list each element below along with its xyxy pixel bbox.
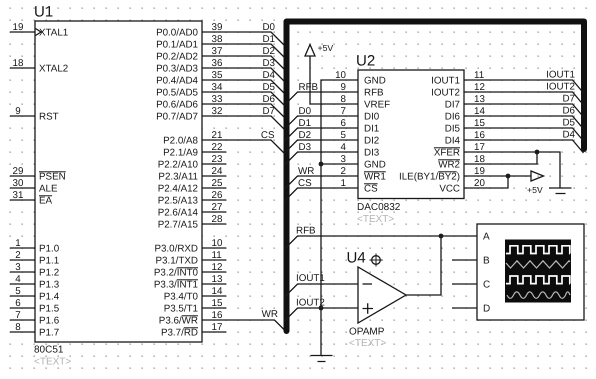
svg-text:35: 35 <box>212 70 223 81</box>
svg-text:D7: D7 <box>262 106 275 117</box>
svg-text:D6: D6 <box>262 94 275 105</box>
svg-text:CS: CS <box>364 183 378 194</box>
U1 pin 2 wire <box>10 259 35 261</box>
wire D0 to U2 <box>285 116 359 129</box>
svg-text:12: 12 <box>212 262 223 273</box>
svg-text:<TEXT>: <TEXT> <box>349 338 386 349</box>
svg-text:P2.0/A8: P2.0/A8 <box>163 135 198 146</box>
ground symbol (left) <box>311 356 333 362</box>
svg-text:39: 39 <box>212 22 223 33</box>
svg-text:RST: RST <box>39 111 59 122</box>
U1 pin 34 wire <box>202 92 285 106</box>
svg-text:D3: D3 <box>299 142 312 153</box>
svg-text:14: 14 <box>212 286 223 297</box>
IC U1 80C51 body <box>35 21 202 342</box>
junction ILE/VCC <box>506 174 511 179</box>
svg-text:<TEXT>: <TEXT> <box>34 357 71 368</box>
wire D2 to U2 <box>285 140 359 153</box>
svg-text:3: 3 <box>15 262 21 273</box>
svg-text:11: 11 <box>212 250 222 261</box>
svg-text:15: 15 <box>212 298 223 309</box>
U1 pin 38 wire <box>202 44 285 58</box>
scope input D wire <box>452 307 477 309</box>
svg-text:A: A <box>483 232 490 243</box>
svg-text:DI0: DI0 <box>364 111 380 122</box>
svg-text:P1.2: P1.2 <box>39 267 59 278</box>
svg-text:P1.0: P1.0 <box>39 243 60 254</box>
opamp output feedback wire <box>406 236 441 295</box>
svg-text:IOUT1: IOUT1 <box>431 75 460 86</box>
U1 pin 35 wire <box>202 80 285 94</box>
svg-text:P2.7/A15: P2.7/A15 <box>158 219 199 230</box>
svg-text:19: 19 <box>13 22 24 33</box>
U1 pin 12 wire <box>202 271 226 273</box>
svg-text:GND: GND <box>364 159 386 170</box>
U1 pin 26 wire <box>202 199 226 201</box>
svg-text:D: D <box>483 304 490 315</box>
junction IOUT2-gnd <box>319 306 324 311</box>
svg-text:P1.6: P1.6 <box>39 315 60 326</box>
U1 pin 5 wire <box>10 295 35 297</box>
svg-text:RFB: RFB <box>364 87 384 98</box>
svg-text:P3.2/INT0: P3.2/INT0 <box>154 267 199 278</box>
svg-text:D4: D4 <box>562 129 575 140</box>
svg-text:P3.4/T0: P3.4/T0 <box>164 291 199 302</box>
U1 pin 13 wire <box>202 283 226 285</box>
svg-text:P2.5/A13: P2.5/A13 <box>158 195 199 206</box>
scope trace C square wave <box>506 276 570 284</box>
wire XFER pin17 to gnd <box>464 152 560 188</box>
svg-text:3: 3 <box>341 154 347 165</box>
svg-text:14: 14 <box>474 106 485 117</box>
svg-text:13: 13 <box>212 274 223 285</box>
svg-text:P1.1: P1.1 <box>39 255 59 266</box>
power symbol +5V (right arrow) <box>531 171 544 181</box>
svg-text:17: 17 <box>212 322 223 333</box>
U1 pin 21 wire <box>202 140 285 154</box>
U1 pin 7 wire <box>10 319 35 321</box>
svg-text:<TEXT>: <TEXT> <box>357 214 394 225</box>
U1 pin 4 wire <box>10 283 35 285</box>
U1 pin 37 wire <box>202 56 285 70</box>
U1 pin 16 wire <box>202 320 285 330</box>
opamp minus input sign <box>363 283 373 285</box>
data bus (thick) <box>287 22 585 332</box>
svg-text:2: 2 <box>15 250 20 261</box>
op-amp U4 triangle <box>358 267 406 323</box>
svg-text:+5V: +5V <box>527 185 543 195</box>
svg-text:OPAMP: OPAMP <box>349 327 385 338</box>
svg-text:25: 25 <box>212 178 223 189</box>
power symbol +5V (up arrow) <box>305 45 315 57</box>
+5V rail to VREF pin8 <box>310 56 358 104</box>
svg-text:9: 9 <box>15 106 20 117</box>
svg-text:17: 17 <box>474 142 485 153</box>
svg-text:30: 30 <box>13 178 24 189</box>
svg-text:D1: D1 <box>299 118 312 129</box>
wire CS to U2 <box>285 188 359 201</box>
wire U2 pin 15 to right bus (D5) <box>464 128 584 141</box>
svg-text:DI7: DI7 <box>445 99 460 110</box>
svg-text:P2.3/A11: P2.3/A11 <box>158 171 198 182</box>
svg-text:+5V: +5V <box>318 43 334 53</box>
wire WR to U2 <box>285 176 359 189</box>
svg-text:DI4: DI4 <box>445 135 461 146</box>
svg-text:33: 33 <box>212 94 223 105</box>
svg-text:DI2: DI2 <box>364 135 379 146</box>
wire U2 pin 14 to right bus (D6) <box>464 116 584 129</box>
wire U2 pin 16 to right bus (D4) <box>464 140 584 153</box>
scope trace A square wave <box>506 246 570 254</box>
scope trace D sine wave <box>507 292 570 298</box>
svg-text:U1: U1 <box>34 4 53 21</box>
U1 pin 33 wire <box>202 104 285 118</box>
svg-text:27: 27 <box>212 202 223 213</box>
wire WR2 pin18 <box>464 152 537 164</box>
GND pin10 wire down <box>321 80 358 355</box>
svg-text:VREF: VREF <box>364 99 390 110</box>
wire VCC pin20 <box>464 176 508 188</box>
svg-text:5: 5 <box>15 286 21 297</box>
svg-text:13: 13 <box>474 94 485 105</box>
junction RFB/output <box>439 234 444 239</box>
svg-text:21: 21 <box>212 130 223 141</box>
svg-text:10: 10 <box>212 238 223 249</box>
svg-text:12: 12 <box>474 82 485 93</box>
svg-text:22: 22 <box>212 142 223 153</box>
scope input B wire <box>452 259 477 261</box>
U1 pin 27 wire <box>202 211 226 213</box>
wire U2 pin 11 to right bus (IOUT1) <box>464 80 584 93</box>
svg-text:18: 18 <box>13 58 24 69</box>
svg-text:32: 32 <box>212 106 223 117</box>
svg-text:37: 37 <box>212 46 223 57</box>
svg-text:P0.5/AD5: P0.5/AD5 <box>156 87 198 98</box>
svg-text:WR2: WR2 <box>438 159 460 170</box>
svg-text:P0.2/AD2: P0.2/AD2 <box>156 51 198 62</box>
svg-text:6: 6 <box>341 118 347 129</box>
svg-text:P3.0/RXD: P3.0/RXD <box>154 243 198 254</box>
svg-text:26: 26 <box>212 190 223 201</box>
wire RFB to U2 pin9 <box>285 92 361 105</box>
svg-text:WR: WR <box>262 309 278 320</box>
svg-text:D1: D1 <box>262 34 275 45</box>
IC U2 DAC0832 body <box>358 70 464 199</box>
wire IOUT1 to opamp <box>285 284 359 297</box>
svg-text:16: 16 <box>212 310 223 321</box>
U1 pin 36 wire <box>202 68 285 82</box>
wire RFB to scope A <box>285 236 478 249</box>
wire D3 to U2 <box>285 152 359 165</box>
svg-text:11: 11 <box>474 70 484 81</box>
svg-text:80C51: 80C51 <box>34 345 64 356</box>
svg-text:P0.4/AD4: P0.4/AD4 <box>156 75 198 86</box>
scope screen <box>505 240 571 303</box>
svg-text:P1.7: P1.7 <box>39 327 59 338</box>
wire U2 pin 12 to right bus (IOUT2) <box>464 92 584 105</box>
svg-text:EA: EA <box>39 195 53 206</box>
U1 pin 22 wire <box>202 151 226 153</box>
wire IOUT2 to opamp <box>285 308 359 321</box>
svg-text:D4: D4 <box>262 70 275 81</box>
svg-text:6: 6 <box>15 298 21 309</box>
svg-text:15: 15 <box>474 118 485 129</box>
svg-text:P2.1/A9: P2.1/A9 <box>163 147 198 158</box>
svg-text:C: C <box>483 280 490 291</box>
U1 pin 29 wire <box>10 175 35 177</box>
svg-text:36: 36 <box>212 58 223 69</box>
svg-text:D3: D3 <box>262 58 275 69</box>
GND pin3 wire <box>321 163 358 165</box>
XTAL1 clock chevron <box>36 29 42 36</box>
svg-text:19: 19 <box>474 166 485 177</box>
oscilloscope body <box>477 224 584 320</box>
svg-text:IOUT2: IOUT2 <box>546 81 575 92</box>
svg-text:29: 29 <box>13 166 24 177</box>
svg-text:DI3: DI3 <box>364 147 380 158</box>
svg-text:PSEN: PSEN <box>39 171 66 182</box>
svg-text:7: 7 <box>15 310 20 321</box>
opamp plus input sign <box>363 303 374 314</box>
svg-text:XTAL1: XTAL1 <box>39 27 68 38</box>
svg-text:WR: WR <box>298 166 314 177</box>
svg-text:D5: D5 <box>562 117 575 128</box>
svg-text:2: 2 <box>341 166 346 177</box>
svg-text:DAC0832: DAC0832 <box>357 202 401 213</box>
svg-text:D0: D0 <box>262 22 275 33</box>
svg-text:IOUT1: IOUT1 <box>546 69 575 80</box>
svg-text:DI1: DI1 <box>364 123 379 134</box>
U1 pin 28 wire <box>202 223 226 225</box>
svg-text:P1.5: P1.5 <box>39 303 60 314</box>
svg-text:U4: U4 <box>347 250 366 267</box>
svg-text:8: 8 <box>15 322 21 333</box>
svg-text:P0.0/AD0: P0.0/AD0 <box>156 27 198 38</box>
U1 pin 3 wire <box>10 271 35 273</box>
U1 pin 23 wire <box>202 163 226 165</box>
svg-text:18: 18 <box>474 154 485 165</box>
svg-text:XFER: XFER <box>434 147 460 158</box>
svg-text:1: 1 <box>341 178 346 189</box>
svg-text:P1.3: P1.3 <box>39 279 60 290</box>
svg-text:31: 31 <box>13 190 24 201</box>
svg-text:P0.3/AD3: P0.3/AD3 <box>156 63 198 74</box>
svg-text:P2.2/A10: P2.2/A10 <box>158 159 199 170</box>
U1 pin 25 wire <box>202 187 226 189</box>
U1 pin 10 wire <box>202 247 226 249</box>
U1 pin 6 wire <box>10 307 35 309</box>
svg-text:IOUT2: IOUT2 <box>431 87 460 98</box>
svg-text:P3.6/WR: P3.6/WR <box>159 315 198 326</box>
wire U2 pin 13 to right bus (D7) <box>464 104 584 117</box>
svg-text:P1.4: P1.4 <box>39 291 60 302</box>
svg-text:XTAL2: XTAL2 <box>39 63 68 74</box>
svg-text:P0.7/AD7: P0.7/AD7 <box>156 111 198 122</box>
U1 pin 31 wire <box>10 199 35 201</box>
svg-text:RFB: RFB <box>296 226 316 237</box>
svg-text:4: 4 <box>341 142 347 153</box>
U1 pin 1 wire <box>10 247 35 249</box>
junction XFER/WR2 <box>535 150 540 155</box>
U1 pin 30 wire <box>10 187 35 189</box>
junction GND pins <box>319 162 324 167</box>
U1 pin 18 wire <box>10 67 35 69</box>
svg-text:DI6: DI6 <box>445 111 461 122</box>
svg-text:RFB: RFB <box>299 82 319 93</box>
svg-text:1: 1 <box>15 238 20 249</box>
svg-text:D6: D6 <box>562 105 575 116</box>
U1 pin 19 wire <box>10 31 35 33</box>
svg-text:34: 34 <box>212 82 223 93</box>
svg-text:D2: D2 <box>299 130 312 141</box>
svg-text:P0.6/AD6: P0.6/AD6 <box>156 99 198 110</box>
svg-text:38: 38 <box>212 34 223 45</box>
svg-text:WR1: WR1 <box>364 171 386 182</box>
scope input C wire <box>452 283 477 285</box>
svg-text:P3.7/RD: P3.7/RD <box>161 327 198 338</box>
wire ILE pin19 to +5V <box>464 175 531 177</box>
svg-text:P2.6/A14: P2.6/A14 <box>158 207 199 218</box>
U1 pin 17 wire <box>202 331 226 333</box>
svg-text:D7: D7 <box>562 93 575 104</box>
svg-text:ILE(BY1/BY2): ILE(BY1/BY2) <box>399 171 460 182</box>
U4 origin marker <box>372 256 381 265</box>
wire D1 to U2 <box>285 128 359 141</box>
U1 pin 15 wire <box>202 307 226 309</box>
U1 pin 11 wire <box>202 259 226 261</box>
svg-text:8: 8 <box>341 94 347 105</box>
svg-text:D5: D5 <box>262 82 275 93</box>
svg-text:23: 23 <box>212 154 223 165</box>
U1 pin 8 wire <box>10 331 35 333</box>
svg-text:28: 28 <box>212 214 223 225</box>
svg-text:7: 7 <box>341 106 346 117</box>
svg-text:P0.1/AD1: P0.1/AD1 <box>156 39 198 50</box>
svg-text:B: B <box>483 256 490 267</box>
U1 pin 24 wire <box>202 175 226 177</box>
svg-text:CS: CS <box>298 178 312 189</box>
svg-text:CS: CS <box>261 130 275 141</box>
svg-text:D0: D0 <box>299 106 312 117</box>
svg-text:10: 10 <box>335 70 346 81</box>
U1 pin 39 wire <box>202 32 285 46</box>
svg-text:U2: U2 <box>356 53 375 70</box>
U1 pin 14 wire <box>202 295 226 297</box>
svg-text:5: 5 <box>341 130 347 141</box>
svg-text:P3.5/T1: P3.5/T1 <box>164 303 198 314</box>
U1 pin 32 wire <box>202 116 285 130</box>
U1 pin 9 wire <box>10 115 35 117</box>
svg-text:9: 9 <box>341 82 346 93</box>
svg-text:20: 20 <box>474 178 485 189</box>
svg-text:16: 16 <box>474 130 485 141</box>
ground symbol (right) <box>549 188 572 194</box>
svg-text:P2.4/A12: P2.4/A12 <box>158 183 198 194</box>
scope trace B triangle wave <box>506 261 570 268</box>
svg-text:D2: D2 <box>262 46 275 57</box>
svg-text:P3.1/TXD: P3.1/TXD <box>156 255 198 266</box>
svg-text:24: 24 <box>212 166 223 177</box>
svg-text:ALE: ALE <box>39 183 58 194</box>
svg-text:DI5: DI5 <box>445 123 461 134</box>
svg-text:VCC: VCC <box>439 183 460 194</box>
svg-text:P3.3/INT1: P3.3/INT1 <box>154 279 198 290</box>
svg-text:4: 4 <box>15 274 21 285</box>
svg-text:GND: GND <box>364 75 386 86</box>
